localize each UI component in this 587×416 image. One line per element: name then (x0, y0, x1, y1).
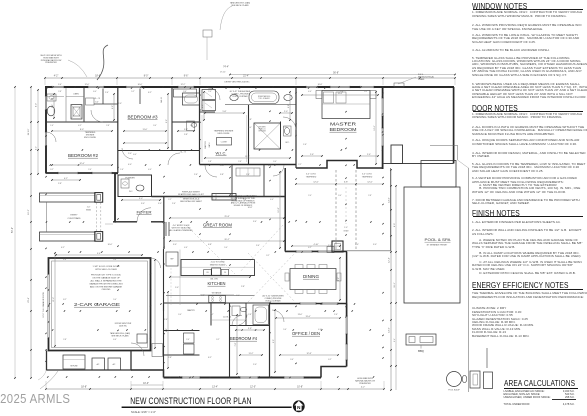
svg-text:6'-8": 6'-8" (208, 244, 212, 246)
svg-text:SEE MECH. PLANS: SEE MECH. PLANS (111, 334, 129, 337)
svg-text:11'-6": 11'-6" (245, 156, 250, 158)
svg-text:9'-0": 9'-0" (273, 339, 275, 343)
svg-text:3'-6": 3'-6" (113, 259, 117, 261)
svg-text:8'-0": 8'-0" (144, 76, 149, 78)
svg-text:6'-8": 6'-8" (201, 295, 205, 297)
svg-text:W.C.: W.C. (129, 191, 133, 193)
svg-text:5'-8": 5'-8" (184, 134, 188, 136)
svg-text:1'-8": 1'-8" (208, 161, 212, 163)
svg-text:3'-4": 3'-4" (338, 195, 342, 197)
svg-text:AND ON THE ENTIRE GARAGE: AND ON THE ENTIRE GARAGE (90, 285, 123, 288)
svg-text:ENCLOSURE: ENCLOSURE (218, 133, 231, 135)
svg-text:5'-0": 5'-0" (175, 287, 179, 289)
svg-text:10'-8": 10'-8" (297, 387, 303, 389)
svg-text:2'-4": 2'-4" (88, 169, 92, 171)
svg-text:ALL WALLS SEPARATING THE: ALL WALLS SEPARATING THE (90, 280, 122, 283)
svg-text:2'-8": 2'-8" (248, 314, 252, 316)
svg-text:CL. #2: CL. #2 (180, 152, 186, 154)
svg-text:SEATING ISLAND: SEATING ISLAND (210, 263, 226, 266)
svg-text:A/C: A/C (97, 363, 101, 366)
svg-text:5'-8": 5'-8" (248, 119, 252, 121)
svg-text:BEDROOM #2: BEDROOM #2 (68, 153, 99, 158)
svg-text:COURTYARD: COURTYARD (68, 217, 81, 220)
svg-text:12'-8": 12'-8" (306, 353, 311, 355)
svg-text:10'-2": 10'-2" (28, 209, 30, 215)
svg-text:1'-0": 1'-0" (344, 227, 348, 229)
svg-text:10'-8": 10'-8" (278, 207, 280, 212)
svg-text:WITH SELF-CLOSER: WITH SELF-CLOSER (95, 269, 117, 271)
svg-text:ON THE GARAGE SIDE OF: ON THE GARAGE SIDE OF (92, 277, 120, 280)
svg-text:5'-6": 5'-6" (283, 329, 287, 331)
svg-text:SHOWER: SHOWER (258, 127, 266, 129)
svg-text:LINEN: LINEN (73, 94, 79, 96)
svg-text:2'-6": 2'-6" (186, 339, 190, 341)
svg-text:PLANS: PLANS (418, 78, 425, 81)
svg-text:5'-8": 5'-8" (340, 91, 344, 93)
svg-text:BBQ: BBQ (418, 349, 424, 353)
svg-text:13'-6": 13'-6" (298, 314, 303, 316)
svg-text:KITCHEN: KITCHEN (208, 281, 226, 286)
svg-text:6'-2": 6'-2" (36, 146, 38, 150)
svg-text:8'-2": 8'-2" (338, 277, 340, 281)
svg-text:4'-2": 4'-2" (78, 125, 82, 127)
svg-text:ALL GLAZING TEMPERED: ALL GLAZING TEMPERED (169, 229, 193, 232)
svg-text:DRYER VENT PER 2018 IRC: DRYER VENT PER 2018 IRC (224, 82, 250, 84)
svg-text:ICE: ICE (224, 272, 226, 274)
svg-text:PREVENTER: PREVENTER (359, 383, 371, 385)
svg-text:2'-4": 2'-4" (172, 203, 176, 205)
svg-text:3'-2": 3'-2" (216, 339, 220, 341)
svg-text:3'-6": 3'-6" (290, 359, 294, 361)
svg-text:GARAGE FROM THE DWELLING: GARAGE FROM THE DWELLING (89, 282, 123, 285)
svg-text:1'-6": 1'-6" (50, 125, 54, 127)
svg-text:9'-6": 9'-6" (97, 253, 101, 255)
svg-text:3'-4": 3'-4" (394, 338, 396, 342)
svg-text:5'-8": 5'-8" (184, 129, 188, 131)
svg-text:3'-0": 3'-0" (158, 203, 162, 205)
svg-text:MASTER: MASTER (204, 141, 207, 149)
svg-text:6'-0": 6'-0" (95, 102, 99, 104)
svg-text:23'-4": 23'-4" (28, 297, 30, 303)
svg-text:OFFICE / DEN: OFFICE / DEN (292, 331, 320, 336)
svg-text:POOL EQUIP: POOL EQUIP (448, 390, 460, 392)
svg-text:6'-8": 6'-8" (344, 182, 348, 184)
svg-text:3'-0": 3'-0" (373, 244, 377, 246)
svg-text:4'-0": 4'-0" (148, 169, 152, 171)
svg-text:ENCLOSURE: ENCLOSURE (84, 137, 97, 139)
svg-text:2018 IRC: 2018 IRC (119, 325, 128, 327)
svg-text:3'-0": 3'-0" (273, 161, 277, 163)
svg-text:3'-0" CONT.: 3'-0" CONT. (362, 174, 372, 176)
svg-text:6'-2": 6'-2" (148, 92, 152, 94)
svg-text:4'-2": 4'-2" (361, 387, 366, 389)
svg-text:TEMPERED: TEMPERED (362, 177, 373, 179)
svg-text:20'-2": 20'-2" (224, 239, 229, 241)
svg-text:2'-0": 2'-0" (118, 103, 122, 105)
svg-text:3'-6": 3'-6" (52, 104, 54, 108)
svg-text:A/C: A/C (113, 363, 117, 366)
svg-text:8'-0": 8'-0" (80, 129, 84, 131)
svg-text:SCALE: 3/16" = 1'-0": SCALE: 3/16" = 1'-0" (131, 410, 156, 414)
svg-text:1'-6": 1'-6" (164, 319, 168, 321)
svg-text:8'-0": 8'-0" (394, 223, 396, 227)
svg-text:2'-2": 2'-2" (298, 164, 302, 166)
svg-text:12'-0": 12'-0" (250, 387, 256, 389)
svg-text:3'-0": 3'-0" (139, 198, 143, 200)
svg-text:BEAM: BEAM (86, 208, 91, 211)
svg-text:10'-0": 10'-0" (143, 383, 149, 385)
svg-text:3'-0": 3'-0" (248, 127, 252, 129)
svg-text:4'-8": 4'-8" (63, 259, 67, 261)
svg-text:5'-4": 5'-4" (256, 245, 260, 247)
svg-text:3'-2": 3'-2" (364, 91, 368, 93)
svg-text:BA. #3: BA. #3 (160, 97, 163, 102)
svg-text:10'-0": 10'-0" (138, 84, 143, 86)
svg-text:13'-6": 13'-6" (337, 93, 342, 95)
svg-text:12'-0": 12'-0" (367, 182, 373, 184)
svg-text:2'-6": 2'-6" (194, 174, 198, 176)
svg-text:5'-8": 5'-8" (223, 111, 227, 113)
svg-text:2'-6": 2'-6" (238, 161, 242, 163)
svg-text:12'-6": 12'-6" (374, 125, 376, 130)
svg-text:MASTER: MASTER (330, 122, 356, 127)
svg-text:9'-2": 9'-2" (166, 119, 168, 123)
svg-text:12'-4": 12'-4" (389, 257, 391, 263)
svg-text:2'-6": 2'-6" (367, 154, 371, 156)
svg-text:14'-0": 14'-0" (389, 327, 391, 333)
svg-text:11'-0": 11'-0" (143, 129, 148, 131)
svg-text:NEW CONSTRUCTION FLOOR PLAN: NEW CONSTRUCTION FLOOR PLAN (130, 395, 251, 407)
svg-text:6'-2": 6'-2" (328, 359, 332, 361)
svg-text:3'-0": 3'-0" (141, 203, 145, 205)
svg-text:3'-4": 3'-4" (253, 221, 257, 223)
svg-text:ROD & CURTAIN: ROD & CURTAIN (266, 299, 281, 302)
svg-text:4'-10": 4'-10" (313, 244, 318, 246)
svg-text:12'-0": 12'-0" (313, 182, 319, 184)
svg-text:2'-2": 2'-2" (168, 199, 172, 201)
svg-text:6'-2": 6'-2" (166, 328, 168, 332)
svg-text:4'-2": 4'-2" (61, 247, 65, 249)
svg-text:18'-0" O.H. GARAGE DOOR: 18'-0" O.H. GARAGE DOOR (42, 292, 45, 318)
svg-text:4'-8": 4'-8" (288, 104, 290, 108)
svg-text:19'-10": 19'-10" (28, 128, 30, 135)
svg-text:BEDROOM: BEDROOM (330, 127, 357, 132)
svg-text:4'-2": 4'-2" (64, 178, 68, 180)
svg-text:5'-4": 5'-4" (113, 299, 117, 301)
svg-text:6'-0": 6'-0" (133, 154, 137, 156)
svg-text:25'-8": 25'-8" (224, 216, 229, 218)
svg-text:2'-8": 2'-8" (241, 286, 245, 288)
svg-text:5'-4": 5'-4" (213, 199, 217, 201)
svg-text:CLOS. #4: CLOS. #4 (223, 317, 231, 319)
svg-text:BY SEPARATE PERMIT: BY SEPARATE PERMIT (427, 244, 448, 247)
svg-text:21'-4": 21'-4" (243, 76, 249, 78)
svg-text:5'-0": 5'-0" (224, 247, 228, 249)
svg-text:3'-2": 3'-2" (50, 169, 54, 171)
svg-text:DINING: DINING (303, 274, 319, 279)
svg-text:BEDROOM #3: BEDROOM #3 (128, 115, 159, 120)
svg-text:4'-2": 4'-2" (210, 314, 214, 316)
svg-text:3'-2": 3'-2" (266, 255, 270, 257)
svg-text:5'-4": 5'-4" (58, 84, 62, 86)
svg-text:W.C.: W.C. (285, 142, 290, 144)
svg-text:4'-8": 4'-8" (202, 104, 204, 108)
svg-text:7'-8": 7'-8" (235, 342, 237, 346)
svg-text:13'-6": 13'-6" (305, 316, 310, 318)
svg-text:2'-0": 2'-0" (355, 244, 359, 246)
svg-text:2'-8": 2'-8" (368, 195, 372, 197)
svg-text:8'-0": 8'-0" (36, 103, 38, 107)
svg-text:CEILING: CEILING (102, 289, 111, 291)
svg-text:1'-6": 1'-6" (87, 207, 91, 209)
svg-text:11'-6": 11'-6" (220, 165, 225, 167)
svg-text:ROD & CURTAIN: ROD & CURTAIN (233, 95, 248, 98)
svg-text:POWDER: POWDER (125, 178, 135, 180)
svg-text:BEDROOM #4: BEDROOM #4 (230, 336, 258, 341)
svg-text:56'-8": 56'-8" (333, 73, 339, 75)
svg-text:PROVIDE 5/8" TYPE X G.W.B.: PROVIDE 5/8" TYPE X G.W.B. (91, 275, 122, 277)
svg-text:2'-4": 2'-4" (236, 295, 240, 297)
svg-text:BATH: BATH (208, 142, 211, 147)
svg-text:4'-2": 4'-2" (308, 247, 312, 249)
svg-text:16'-8": 16'-8" (318, 84, 323, 86)
svg-text:12'-0": 12'-0" (85, 84, 90, 86)
svg-text:74'-4": 74'-4" (223, 67, 229, 69)
svg-text:2'-0": 2'-0" (308, 195, 312, 197)
svg-text:CL. #3: CL. #3 (94, 98, 100, 100)
svg-text:2'-0": 2'-0" (284, 111, 288, 113)
svg-text:9'-6": 9'-6" (184, 76, 189, 78)
svg-text:5'-0": 5'-0" (128, 153, 132, 155)
svg-text:10'-6": 10'-6" (108, 244, 113, 246)
svg-text:4'-6": 4'-6" (112, 105, 114, 109)
svg-text:GREAT ROOM: GREAT ROOM (203, 223, 232, 228)
svg-text:2'-8": 2'-8" (58, 183, 62, 185)
svg-text:CLOSET: CLOSET (221, 142, 227, 144)
svg-text:4'-6": 4'-6" (184, 247, 188, 249)
svg-text:5'-2": 5'-2" (131, 91, 135, 93)
svg-text:WB: WB (206, 272, 208, 274)
svg-text:TEMPERED: TEMPERED (306, 177, 317, 179)
svg-text:2'-2": 2'-2" (283, 127, 287, 129)
svg-text:W/ RANGE: W/ RANGE (212, 292, 222, 295)
svg-text:2'-8": 2'-8" (58, 91, 62, 93)
svg-text:PANTRY: PANTRY (187, 309, 195, 312)
svg-text:2'-6": 2'-6" (334, 314, 338, 316)
svg-text:SEE MECH. PLANS: SEE MECH. PLANS (231, 4, 249, 7)
svg-text:18'-8": 18'-8" (81, 387, 87, 389)
svg-text:16'-2": 16'-2" (394, 282, 396, 288)
svg-text:6'-6": 6'-6" (113, 339, 117, 341)
svg-text:15'-2": 15'-2" (53, 297, 55, 302)
svg-text:REFUSE: REFUSE (70, 366, 78, 368)
svg-text:3'-0": 3'-0" (178, 314, 182, 316)
svg-text:4'-0": 4'-0" (270, 199, 274, 201)
svg-text:FOYER: FOYER (137, 210, 152, 215)
svg-text:13'-4": 13'-4" (212, 387, 218, 389)
svg-text:12'-2": 12'-2" (181, 84, 186, 86)
svg-text:3'-6": 3'-6" (183, 91, 187, 93)
svg-text:4'-2": 4'-2" (54, 76, 59, 78)
svg-text:2'-4": 2'-4" (105, 92, 109, 94)
svg-text:17'-11": 17'-11" (220, 72, 227, 74)
svg-text:BEAM: BEAM (344, 230, 349, 233)
svg-text:REF: REF (170, 259, 173, 261)
svg-text:1 3/8" SOLID CORE DOOR: 1 3/8" SOLID CORE DOOR (93, 266, 120, 268)
svg-text:50'-2": 50'-2" (12, 227, 14, 233)
svg-text:10'-8": 10'-8" (248, 207, 253, 209)
svg-text:8'-2": 8'-2" (63, 299, 67, 301)
svg-text:2'-6": 2'-6" (310, 154, 314, 156)
svg-text:1'-6": 1'-6" (303, 144, 307, 146)
svg-text:2'-6": 2'-6" (246, 174, 250, 176)
svg-text:3'-4": 3'-4" (153, 125, 157, 127)
svg-text:1'-6": 1'-6" (120, 169, 124, 171)
svg-text:6'-0": 6'-0" (93, 91, 97, 93)
svg-text:3'-8": 3'-8" (220, 174, 224, 176)
svg-text:3'-0" CONT.: 3'-0" CONT. (306, 174, 316, 176)
svg-text:ENTRY: ENTRY (70, 215, 78, 217)
svg-text:SEE DETAIL 03/5 SHEET: SEE DETAIL 03/5 SHEET (180, 200, 203, 203)
svg-text:2'-0": 2'-0" (253, 364, 257, 366)
svg-text:POOL & SPA: POOL & SPA (425, 238, 452, 242)
svg-text:2'-0": 2'-0" (328, 245, 332, 247)
svg-text:12'-6": 12'-6" (79, 163, 84, 165)
svg-text:2'-8": 2'-8" (63, 339, 67, 341)
svg-text:4'-0": 4'-0" (308, 91, 312, 93)
svg-text:FREESTANDING: FREESTANDING (258, 95, 271, 98)
svg-text:2'-0": 2'-0" (208, 91, 212, 93)
svg-text:3'-8": 3'-8" (243, 199, 247, 201)
svg-text:2'-8": 2'-8" (168, 357, 172, 359)
svg-text:4'-0": 4'-0" (128, 164, 132, 166)
svg-text:6'-2": 6'-2" (208, 357, 212, 359)
svg-text:2'-8": 2'-8" (106, 125, 110, 127)
svg-text:11'-2": 11'-2" (249, 353, 254, 355)
svg-text:3'-0": 3'-0" (173, 244, 177, 246)
svg-text:W.I.C.: W.I.C. (216, 151, 227, 156)
svg-text:PREVENTER: PREVENTER (45, 62, 57, 64)
svg-text:3'-8": 3'-8" (248, 328, 252, 330)
svg-text:2'-6": 2'-6" (190, 125, 194, 127)
